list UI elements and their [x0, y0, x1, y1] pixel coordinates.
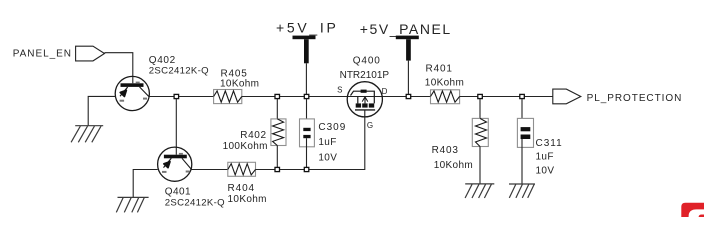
ground under R403 — [465, 184, 494, 198]
resistor R405 — [214, 90, 242, 104]
node PL_PROTECTION output port flag — [553, 89, 581, 104]
capacitor C309 — [300, 119, 315, 147]
svg-text:10Kohm: 10Kohm — [425, 78, 464, 89]
svg-text:R403: R403 — [432, 145, 459, 156]
wire C311 top lead — [521, 99, 523, 128]
svg-text:C311: C311 — [536, 138, 563, 149]
body junction dot — [361, 90, 367, 93]
svg-text:Q400: Q400 — [353, 55, 381, 66]
svg-text:R402: R402 — [240, 130, 266, 141]
svg-text:C309: C309 — [318, 122, 346, 133]
ground under Q401 — [116, 197, 148, 212]
wire PANEL_EN to Q402 base — [105, 53, 133, 84]
resistor R402 — [271, 119, 286, 146]
junction node at Q401 base drop — [174, 94, 179, 98]
junction node C311 top — [520, 94, 525, 98]
wire C311 bottom lead — [521, 139, 523, 184]
body-source top wire — [351, 91, 375, 103]
junction node R402 top — [275, 94, 280, 98]
junction node C309 bottom — [304, 167, 309, 171]
svg-text:10Kohm: 10Kohm — [434, 160, 473, 171]
mosfet Q400 — [347, 82, 382, 117]
node PANEL_EN input port flag — [76, 46, 105, 61]
resistor R401 — [431, 90, 460, 104]
junction node R402 bottom — [275, 167, 280, 171]
svg-text:+5V_IP: +5V_IP — [276, 19, 339, 35]
transistor Q401 — [158, 147, 192, 181]
svg-text:S: S — [337, 86, 342, 95]
svg-text:1uF: 1uF — [318, 137, 336, 148]
junction node +5V_IP / C309 top — [304, 94, 309, 98]
gate stub — [364, 110, 366, 117]
gate plate — [355, 109, 375, 111]
wire R402 top lead — [276, 99, 278, 119]
svg-text:10V: 10V — [536, 166, 555, 177]
svg-text:1uF: 1uF — [536, 152, 554, 163]
svg-text:10Kohm: 10Kohm — [220, 78, 259, 89]
svg-text:+5V_PANEL: +5V_PANEL — [360, 21, 452, 37]
resistor R404 — [228, 162, 256, 176]
body arrow — [364, 97, 366, 103]
svg-text:100Kohm: 100Kohm — [223, 141, 268, 152]
svg-text:G: G — [367, 121, 373, 130]
junction node +5V_PANEL — [406, 94, 411, 98]
svg-text:D: D — [382, 87, 388, 96]
wire junction down to Q401 base — [175, 99, 177, 155]
wire Q401 emitter to ground — [133, 170, 158, 198]
wire R401 to output (upper rail right) — [460, 96, 553, 98]
wire R404 to MOSFET gate (lower rail right) — [256, 117, 365, 170]
svg-text:R404: R404 — [228, 183, 256, 194]
svg-text:R401: R401 — [426, 64, 453, 75]
svg-text:10Kohm: 10Kohm — [228, 194, 267, 205]
svg-text:2SC2412K-Q: 2SC2412K-Q — [165, 198, 225, 209]
svg-text:2SC2412K-Q: 2SC2412K-Q — [149, 66, 209, 77]
ground under Q402 — [71, 126, 103, 143]
wire R403 top lead — [479, 99, 481, 119]
channel contact squares — [356, 103, 361, 107]
ground under C311 — [509, 184, 535, 198]
wire Q401 collector to R404 (lower rail left) — [191, 169, 227, 171]
capacitor C311 — [517, 118, 533, 147]
wire R402 bottom lead — [276, 146, 278, 168]
wire Q402 emitter to ground — [88, 96, 115, 125]
transistor Q402 — [115, 76, 149, 110]
junction node R403 top — [478, 94, 483, 98]
resistor R403 — [472, 118, 488, 146]
wire C309 top lead — [306, 99, 308, 128]
source contact drop — [357, 97, 359, 104]
wire R405 to MOSFET (upper rail mid) — [242, 96, 431, 98]
svg-text:Q402: Q402 — [149, 55, 176, 66]
svg-text:PANEL_EN: PANEL_EN — [13, 49, 72, 60]
svg-text:10V: 10V — [318, 152, 337, 163]
svg-text:PL_PROTECTION: PL_PROTECTION — [587, 93, 683, 104]
wire R403 bottom lead — [479, 147, 481, 184]
wire Q402 collector to R405 (upper rail left) — [149, 96, 213, 98]
power +5V_IP symbol — [293, 36, 316, 95]
power +5V_PANEL symbol — [396, 36, 419, 95]
watermark logo red — [681, 203, 704, 217]
svg-text:Q401: Q401 — [165, 187, 191, 198]
wire C309 bottom lead — [306, 138, 308, 167]
svg-text:NTR2101P: NTR2101P — [340, 70, 390, 81]
